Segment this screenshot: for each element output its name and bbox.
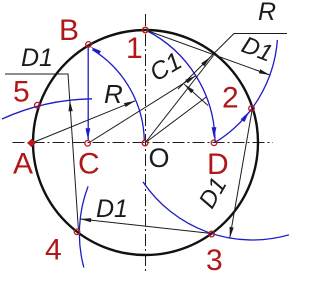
arc eta centered 4 through 5	[2, 99, 92, 119]
main circle	[33, 30, 258, 255]
arrow at 2	[241, 112, 249, 122]
svg-text:3: 3	[206, 244, 223, 277]
leader R2 top-right	[178, 34, 287, 90]
svg-text:O: O	[149, 143, 170, 173]
wire O to arc gamma	[145, 97, 206, 143]
arc gamma centered C from 1 to D	[146, 30, 216, 143]
wire O to circle point (R radius line)	[145, 56, 214, 144]
leader D1 from 1 to arc delta	[146, 30, 270, 75]
svg-text:B: B	[59, 14, 79, 47]
svg-text:R: R	[258, 0, 276, 26]
svg-text:C: C	[78, 148, 100, 181]
wire line B to C	[87, 45, 89, 140]
leader R1 from A to arc alpha	[33, 101, 135, 143]
leader D1 top-left	[5, 74, 79, 231]
svg-text:D1: D1	[96, 195, 128, 223]
arc zeta centered 3 through 4	[79, 186, 88, 267]
arrow at C	[86, 128, 91, 139]
node 5 marker	[35, 102, 41, 108]
svg-text:R: R	[104, 79, 123, 109]
node C marker	[85, 141, 91, 147]
svg-text:5: 5	[13, 76, 30, 109]
arc delta centered 1 from D to 2	[215, 40, 277, 143]
arc epsilon centered 2 through 3	[143, 182, 289, 240]
arrow alpha at B	[91, 47, 101, 55]
svg-text:1: 1	[126, 32, 143, 65]
leader D1 bottom from 3 to 4	[80, 219, 211, 234]
leader C1 from C to arc gamma	[89, 76, 196, 143]
node 3 marker	[209, 231, 215, 237]
node A marker	[27, 139, 36, 148]
leader D1 from 2 to arc epsilon	[230, 108, 253, 238]
svg-text:A: A	[13, 148, 33, 181]
arc alpha centered A through B to O	[92, 50, 144, 141]
node 2 marker	[249, 106, 255, 112]
leader segment near gamma with arrow	[184, 84, 208, 105]
node 1 marker	[143, 27, 149, 33]
svg-text:D1: D1	[21, 44, 53, 72]
node O marker	[142, 140, 148, 146]
arrow at D	[212, 127, 217, 138]
svg-text:2: 2	[222, 82, 239, 115]
svg-text:D: D	[207, 148, 229, 181]
node 4 marker	[74, 229, 80, 235]
centerline vertical	[145, 14, 147, 272]
node B marker	[86, 42, 92, 48]
centerline horizontal	[13, 142, 274, 144]
svg-text:4: 4	[45, 234, 62, 267]
node D marker	[211, 140, 217, 146]
